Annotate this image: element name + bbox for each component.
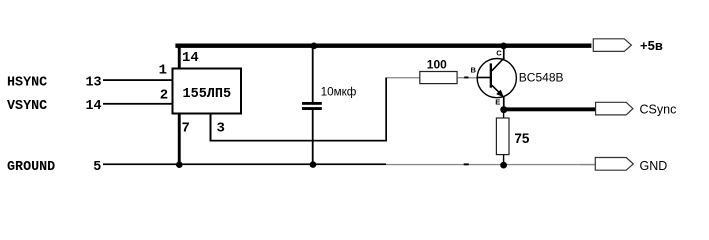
wire IC pin 3 horizontal (210, 140, 387, 142)
junction ground / C1 (310, 161, 317, 168)
wire R1 to Q1 base grey (458, 77, 477, 78)
svg-text:HSYNC: HSYNC (7, 75, 47, 90)
svg-text:5: 5 (93, 160, 101, 175)
transistor Q1 base bar (490, 63, 492, 87)
junction +5V rail / Q1 collector (500, 43, 507, 50)
svg-text:GROUND: GROUND (7, 160, 55, 175)
svg-text:1: 1 (159, 62, 167, 78)
svg-text:BC548B: BC548B (519, 70, 564, 84)
transistor Q1 collector diagonal (492, 58, 504, 71)
svg-text:155ЛП5: 155ЛП5 (183, 87, 232, 102)
wire ground rail grey part (386, 164, 595, 165)
resistor R1 100 (420, 72, 457, 84)
svg-text:E: E (495, 98, 500, 107)
wire CSync thick (504, 107, 596, 111)
connector GND flag (595, 158, 633, 171)
wire Q1 collector to rail (503, 47, 505, 59)
svg-text:14: 14 (86, 99, 102, 114)
transistor Q1 circle BC548B (477, 59, 516, 98)
transistor Q1 emitter diagonal (492, 85, 502, 95)
svg-text:14: 14 (182, 50, 199, 66)
junction ground / R2 (500, 162, 507, 169)
svg-text:B: B (471, 65, 477, 74)
svg-text:CSync: CSync (640, 102, 677, 116)
transistor Q1 emitter arrow (496, 90, 504, 98)
svg-text:13: 13 (86, 75, 102, 90)
wire ground rail black part (103, 163, 386, 165)
wire Q1 emitter down (503, 96, 505, 110)
wire C1 top to +5V rail (312, 48, 314, 103)
svg-text:C: C (496, 49, 502, 58)
svg-text:10мкф: 10мкф (321, 85, 357, 98)
wire VSYNC to IC pin 2 (103, 103, 173, 105)
wire pin 3 net vertical riser (385, 78, 387, 142)
connector CSync flag (596, 102, 633, 115)
connector +5в flag (593, 39, 631, 52)
svg-text:3: 3 (217, 121, 225, 137)
wire C1 bottom to ground (312, 110, 314, 165)
wire riser to R1 grey (387, 77, 420, 78)
junction ground / IC pin 7 (176, 161, 183, 168)
resistor R2 75 (496, 118, 509, 155)
svg-text:2: 2 (160, 88, 168, 104)
capacitor C1 plate top (302, 102, 322, 105)
op-amp U1 IC box 155ЛП5 (173, 69, 242, 114)
wire IC pin 14 to +5V rail (178, 48, 181, 69)
svg-text:7: 7 (182, 121, 190, 137)
wire IC pin 7 to ground (178, 114, 181, 165)
wire GND grey into connector (580, 164, 595, 165)
svg-text:GND: GND (640, 159, 668, 173)
junction +5V rail / C1 (311, 43, 318, 50)
capacitor C1 plate bottom (302, 107, 322, 110)
wire +5V rail (thick top bus) (175, 44, 591, 48)
wire emitter to R2 (503, 110, 504, 118)
svg-text:VSYNC: VSYNC (7, 99, 47, 114)
wire HSYNC to IC pin 1 (103, 79, 173, 81)
wire base dash mark (464, 77, 468, 79)
wire R2 to ground (503, 155, 504, 166)
wire IC pin 3 vertical (210, 114, 212, 141)
svg-text:100: 100 (427, 57, 447, 71)
wire ground rail dash mark (464, 163, 469, 165)
svg-text:75: 75 (514, 131, 530, 146)
svg-text:+5в: +5в (640, 38, 663, 53)
transistor Q1 base wire (477, 77, 490, 79)
junction Q1 emitter / CSync (500, 106, 507, 113)
